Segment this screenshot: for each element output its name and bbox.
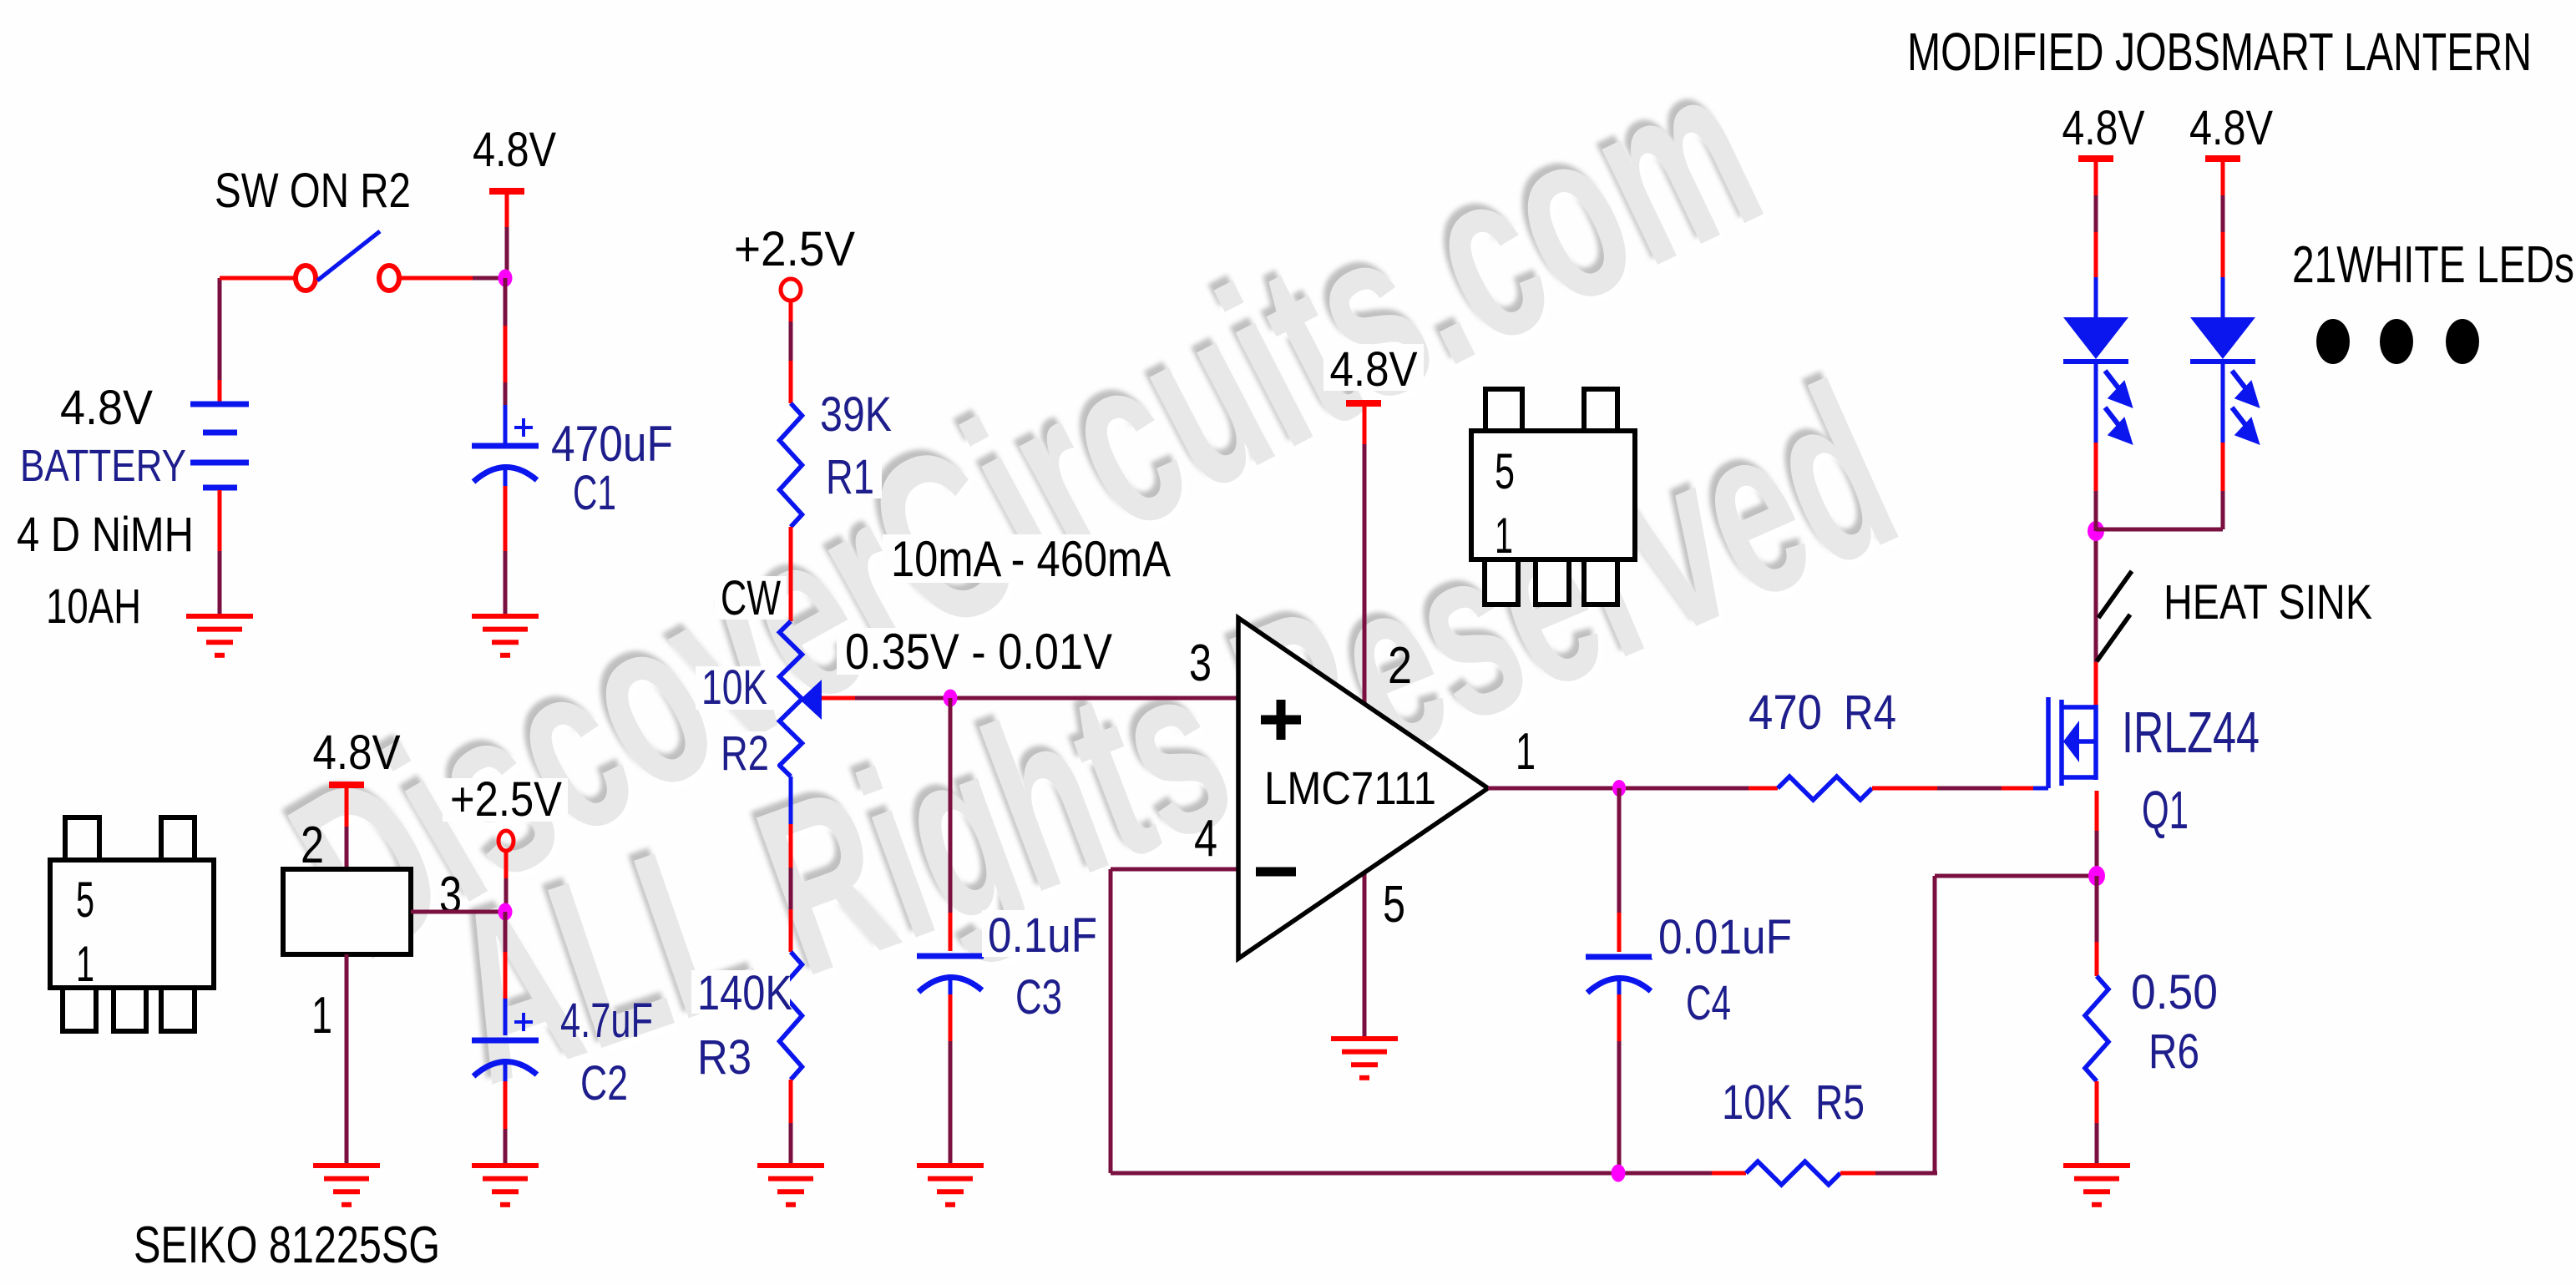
svg-text:C4: C4: [1686, 976, 1731, 1030]
transistor Q1 IRLZ44 mosfet: [2048, 697, 2096, 788]
svg-text:10mA - 460mA: 10mA - 460mA: [891, 531, 1171, 587]
resistor R3 140K: [780, 952, 802, 1080]
svg-text:2: 2: [301, 817, 324, 874]
switch SW blade: [317, 231, 380, 281]
svg-text:4 D NiMH: 4 D NiMH: [17, 508, 194, 562]
wire to R5: [1712, 1171, 1746, 1176]
svg-text:R6: R6: [2148, 1024, 2199, 1079]
power bar 4.8V op-amp: [1346, 400, 1381, 407]
wire C1 to ground: [504, 464, 508, 486]
junction regulator output node: [498, 903, 513, 921]
wire +2.5V to R1: [789, 301, 793, 321]
label R2 pot: [715, 731, 777, 775]
svg-text:C3: C3: [1015, 970, 1062, 1024]
junction LED common: [2088, 521, 2104, 541]
ground op-amp pin5: [1331, 1039, 1398, 1078]
svg-text:Q1: Q1: [2142, 780, 2189, 840]
svg-text:3: 3: [1189, 635, 1212, 692]
wire +2.5V terminal to node: [504, 851, 509, 878]
capacitor C1 470uF: [472, 443, 539, 449]
wire junction to C3: [949, 698, 953, 913]
label 140K: [691, 970, 790, 1014]
wire feedback vertical right: [1933, 876, 1937, 1173]
svg-text:5: 5: [1383, 876, 1405, 933]
power bar 4.8V regulator: [329, 782, 364, 788]
svg-text:LMC7111: LMC7111: [1264, 761, 1436, 814]
power bar LED2: [2205, 155, 2240, 162]
svg-text:4.8V: 4.8V: [2189, 101, 2273, 155]
wire node to C1: [504, 278, 508, 326]
wire to R4: [1749, 787, 1778, 791]
label +2.5V R1: [726, 225, 864, 271]
label 10K pot: [696, 666, 775, 710]
wire op-amp pin2 supply: [1363, 403, 1367, 444]
svg-text:R5: R5: [1815, 1075, 1865, 1130]
svg-text:10K: 10K: [701, 660, 767, 715]
svg-text:10K: 10K: [1722, 1075, 1792, 1130]
wire wiper to junction: [822, 696, 855, 701]
potentiometer R2 10K: [780, 621, 802, 777]
switch SW contact right: [379, 266, 399, 291]
resistor R4 470: [1778, 777, 1872, 800]
regulator U2 SEIKO box: [283, 869, 411, 954]
svg-text:5: 5: [76, 872, 94, 928]
svg-text:C1: C1: [573, 466, 616, 520]
LED diode at x=2662: [2221, 162, 2225, 195]
svg-text:1: 1: [1516, 723, 1536, 781]
label 0.1uF: [982, 910, 1104, 957]
label R1: [820, 454, 882, 498]
wire R1 to pot: [789, 527, 793, 621]
power bar 4.8V C1 node: [489, 188, 524, 195]
svg-text:10AH: 10AH: [46, 579, 141, 634]
svg-text:BATTERY: BATTERY: [20, 441, 186, 491]
label C4: [1680, 980, 1738, 1027]
svg-text:0.50: 0.50: [2131, 965, 2218, 1019]
svg-text:R1: R1: [826, 450, 874, 504]
wire R6 to ground: [2095, 1081, 2099, 1123]
ground battery: [186, 616, 253, 655]
wire LED1 to junction: [2094, 491, 2098, 531]
svg-text:4: 4: [1194, 810, 1217, 868]
svg-text:IRLZ44: IRLZ44: [2122, 700, 2260, 765]
junction source feedback: [2088, 866, 2105, 886]
resistor R5 10K: [1746, 1161, 1840, 1185]
svg-text:0.35V - 0.01V: 0.35V - 0.01V: [845, 624, 1112, 680]
capacitor C4 0.01uF: [1586, 954, 1652, 960]
svg-text:470uF: 470uF: [551, 416, 673, 472]
svg-text:5: 5: [1495, 443, 1515, 499]
svg-text:1: 1: [311, 987, 332, 1045]
wire op-amp pin4 rail: [1111, 868, 1238, 872]
switch SW contact left: [296, 266, 316, 291]
terminal +2.5V regulator: [498, 831, 514, 851]
wire switch to node: [400, 276, 473, 281]
svg-text:3: 3: [439, 867, 462, 924]
wire pot to R3: [789, 777, 793, 824]
wire battery top vertical: [218, 278, 222, 380]
wire junction to C4: [1617, 788, 1622, 913]
label +2.5V regulator: [443, 778, 568, 822]
op-amp plus input symbol: [1261, 716, 1301, 725]
svg-text:0.1uF: 0.1uF: [988, 908, 1097, 963]
terminal +2.5V R1: [781, 279, 801, 301]
svg-text:21WHITE LEDs: 21WHITE LEDs: [2292, 236, 2574, 294]
ground C1: [472, 616, 539, 655]
pot R2 wiper arrow: [800, 680, 822, 720]
svg-text:140K: 140K: [697, 966, 792, 1020]
capacitor C3 0.1uF: [917, 954, 984, 959]
wire source to R6: [2095, 876, 2099, 942]
svg-text:+2.5V: +2.5V: [734, 222, 855, 276]
junction node battery-switch-C1: [498, 270, 513, 287]
ground C2: [472, 1166, 539, 1205]
svg-text:470: 470: [1749, 686, 1822, 740]
wire regulator pin3 to node: [411, 910, 502, 914]
ground R3: [757, 1166, 824, 1205]
wire C4 to bottom rail: [1617, 975, 1622, 994]
label 4.8V op-amp: [1323, 344, 1424, 391]
ground C3: [917, 1166, 984, 1205]
battery BT1 4.8V: [190, 404, 249, 488]
resistor R1 39K: [780, 403, 802, 527]
ellipsis dots more LEDs: [2316, 319, 2350, 364]
svg-text:39K: 39K: [820, 387, 892, 442]
wire source down: [2095, 791, 2099, 831]
ground regulator pin1: [313, 1166, 380, 1205]
wire node to C2: [504, 912, 508, 952]
wire op-amp output: [1488, 787, 1749, 791]
svg-text:+2.5V: +2.5V: [450, 772, 562, 827]
svg-text:0.01uF: 0.01uF: [1658, 910, 1792, 964]
label R3: [691, 1034, 758, 1079]
op-amp minus input symbol: [1256, 868, 1296, 877]
label 39K: [814, 392, 898, 436]
wire C3 to ground: [949, 974, 953, 994]
label 0.01uF: [1652, 910, 1795, 959]
wire C2 to ground: [504, 1059, 508, 1081]
label 0.35V - 0.01V: [837, 628, 1121, 675]
resistor R6 0.50: [2085, 976, 2108, 1081]
svg-text:R3: R3: [697, 1030, 752, 1085]
svg-text:MODIFIED JOBSMART LANTERN: MODIFIED JOBSMART LANTERN: [1907, 22, 2532, 82]
svg-text:4.8V: 4.8V: [313, 726, 401, 780]
svg-text:SEIKO 81225SG: SEIKO 81225SG: [134, 1217, 440, 1274]
package outline SOT-23-5 right: [1471, 389, 1635, 605]
svg-text:4.8V: 4.8V: [1330, 342, 1418, 397]
wire R4 to gate: [1872, 787, 1937, 791]
power bar LED1: [2078, 155, 2113, 162]
junction C4 tap: [1612, 780, 1626, 797]
label CW: [715, 576, 787, 620]
svg-text:4.7uF: 4.7uF: [560, 994, 653, 1048]
ground R6: [2063, 1166, 2130, 1205]
svg-text:1: 1: [76, 936, 94, 992]
wire battery bottom: [218, 490, 222, 551]
heat sink slashes: [2098, 571, 2132, 618]
svg-text:4.8V: 4.8V: [473, 123, 556, 177]
watermark DiscoverCircuits.com: [246, 7, 1933, 1140]
op-amp U1 LMC7111 triangle: [1238, 618, 1488, 959]
wire regulator pin2: [345, 788, 349, 827]
wire drain up: [2094, 531, 2098, 662]
svg-text:R4: R4: [1844, 686, 1896, 740]
wire R3 to ground: [789, 1080, 793, 1123]
junction C3 tap: [944, 690, 958, 707]
wire battery to switch: [220, 276, 294, 281]
wire LED2 corner to junction: [2221, 491, 2225, 529]
label 10mA - 460mA: [883, 534, 1179, 583]
LED diode at x=2510: [2094, 162, 2098, 195]
svg-text:2: 2: [1388, 637, 1412, 695]
svg-text:SW ON R2: SW ON R2: [215, 164, 411, 218]
svg-text:CW: CW: [721, 571, 781, 625]
svg-text:1: 1: [1495, 508, 1513, 564]
wire R5 to corner: [1840, 1171, 1875, 1176]
svg-text:C2: C2: [580, 1056, 628, 1110]
package outline SOT-23-5 left: [50, 817, 214, 1031]
wire bottom rail left: [1111, 1171, 1712, 1176]
wire 4.8V bar to node: [505, 195, 509, 227]
wire feedback horizontal to source: [1935, 874, 2097, 878]
label C3: [1009, 974, 1070, 1019]
svg-text:4.8V: 4.8V: [60, 381, 153, 435]
svg-text:R2: R2: [721, 726, 769, 781]
junction bottom rail C4: [1612, 1165, 1626, 1182]
capacitor C2 4.7uF: [472, 1038, 539, 1044]
wire feedback vertical from pin4: [1109, 869, 1113, 1173]
wire regulator pin1 to ground: [345, 954, 349, 1166]
svg-text:4.8V: 4.8V: [2062, 101, 2145, 155]
svg-text:HEAT SINK: HEAT SINK: [2164, 575, 2372, 630]
wire op-amp pin5 to ground: [1363, 873, 1367, 1039]
